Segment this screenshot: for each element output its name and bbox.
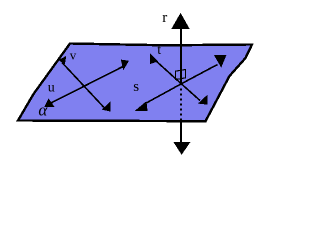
arrowhead v upper-left [58, 56, 66, 64]
arrowhead t upper-left [150, 53, 158, 64]
svg-text:α: α [38, 101, 48, 120]
arrowhead t lower-right [198, 95, 208, 105]
arrowhead r bottom [173, 142, 190, 155]
line v [62, 63, 104, 108]
arrowhead r top [171, 13, 190, 29]
svg-text:s: s [133, 79, 139, 95]
plane alpha (parallelogram) [18, 44, 252, 122]
line r dotted hidden segment [180, 89, 182, 116]
right-angle marker [175, 70, 185, 80]
line u [50, 67, 123, 104]
line t [156, 61, 201, 101]
arrowhead v lower-right [102, 101, 111, 111]
arrowhead u upper-right [121, 60, 129, 71]
svg-text:u: u [48, 80, 55, 95]
svg-text:r: r [162, 10, 167, 26]
svg-text:v: v [70, 48, 77, 63]
line r solid lower segment [180, 119, 182, 144]
arrowhead s lower-left [134, 101, 147, 111]
line r solid upper segment [180, 29, 182, 85]
svg-text:t: t [157, 43, 161, 58]
arrowhead u lower-left [44, 98, 54, 107]
line s [144, 65, 218, 105]
arrowhead s upper-right [214, 55, 227, 68]
